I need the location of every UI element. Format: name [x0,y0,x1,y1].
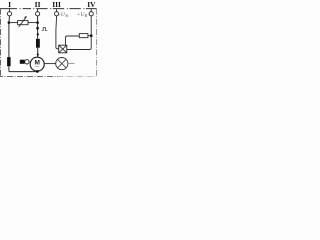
terminal III [55,9,59,16]
thick conductor bar (winding) on rail I [7,57,11,66]
potentiometer R1 arrow [19,18,26,27]
wire: bar down to bottom rail [8,66,10,71]
potentiometer R1 body [18,21,28,25]
wire: terminal I down to junction A and on to thick bar [8,16,11,57]
svg-text:I: I [8,0,11,9]
resistor R2 body [79,34,88,38]
junction F (blob on rail II) [37,33,39,35]
wire: winding bar to motor top [37,48,39,58]
wire: terminal IV rail down, corner left into module right [67,16,91,50]
lamp H1 cross [58,59,67,68]
svg-text:IV: IV [87,0,96,9]
junction D (motor bottom on bottom rail) [36,70,39,73]
wire: lamp right stub [68,63,75,65]
wire: potentiometer right to terminal II rail [28,22,38,24]
motor M armature circle [30,57,44,71]
motor DC mark [35,66,39,68]
electronic module (crossed box) [59,45,67,53]
label USt at terminal III [59,12,69,18]
wire: bottom rail to motor bottom [9,71,38,73]
wire: junction A to potentiometer left [9,22,18,24]
terminal IV [89,9,93,16]
svg-text:M: M [34,60,39,67]
svg-text:III: III [52,0,61,9]
terminal I [7,9,11,16]
label +UB at terminal IV [77,12,88,18]
terminal II [36,9,40,16]
junction A (terminal I rail / pot wire) [8,21,11,24]
junction C (signal node on rail II) [36,27,39,30]
enclosure border top (dash-dot) [0,8,97,10]
wire: motor right to lamp left [44,63,55,65]
motor brush block (black) [20,60,25,64]
junction G (blob above motor) [37,54,39,56]
enclosure border bottom (dash-dot) [0,76,58,78]
thick conductor bar (winding) on rail II [36,39,40,48]
enclosure border left (dash-dot) [0,9,2,77]
svg-text:II: II [35,0,41,9]
wire: terminal III down to module left [56,16,59,49]
wire: module top up and right to resistor R2 [66,36,80,45]
wire: terminal II rail down to winding bar [37,16,39,39]
enclosure border right (dash-dot) [96,9,98,77]
motor drive pinion circle [25,60,29,64]
lamp H1 circle [56,58,68,70]
junction E (resistor joins rail IV) [90,34,93,37]
pulse signal symbol [42,28,47,31]
junction B (pot wire joins rail II) [36,21,39,24]
wire: resistor R2 right to rail IV [88,35,91,37]
